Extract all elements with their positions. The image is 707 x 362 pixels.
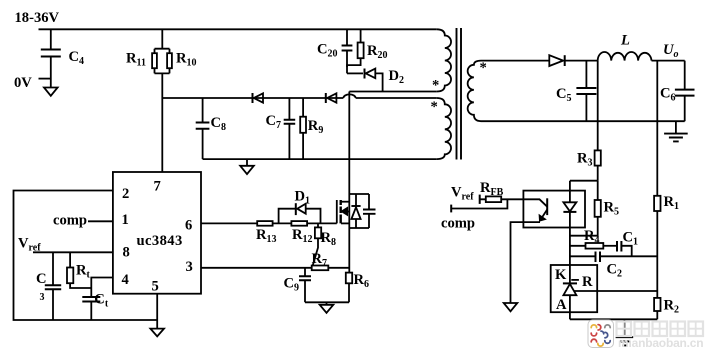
resistor RFB xyxy=(480,180,524,204)
wire pin5 to ground xyxy=(156,294,158,329)
wire pin3 current sense xyxy=(201,267,312,269)
svg-text:Vref: Vref xyxy=(18,236,41,254)
capacitor C2 xyxy=(596,252,658,280)
watermark logo xyxy=(588,320,614,348)
diode D aux2 (pointing left) xyxy=(326,93,337,103)
optocoupler LED xyxy=(563,181,576,284)
svg-text:C5: C5 xyxy=(556,86,572,104)
wire aux ground rail xyxy=(203,158,437,160)
resistor R2 xyxy=(654,298,679,320)
ground (input 0V) xyxy=(44,88,58,96)
svg-text:R: R xyxy=(582,274,593,290)
ground (sense rail) xyxy=(320,302,334,313)
svg-text:D2: D2 xyxy=(389,68,405,86)
resistor R20 xyxy=(347,29,388,73)
transformer core xyxy=(457,28,462,160)
wire source vertical xyxy=(348,228,350,273)
svg-text:uc3843: uc3843 xyxy=(137,233,183,249)
svg-text:comp: comp xyxy=(441,216,475,232)
wire R3 to LED branch xyxy=(570,181,598,200)
svg-text:Ct: Ct xyxy=(94,292,109,310)
ground (aux rail) xyxy=(240,159,254,174)
capacitor Ct xyxy=(82,278,113,321)
resistor R11 xyxy=(126,51,157,69)
wire Vin to R11/R10 xyxy=(155,29,170,172)
capacitor C4 xyxy=(41,29,84,87)
wire pin6 gate drive xyxy=(201,222,257,224)
optocoupler phototransistor xyxy=(511,198,548,303)
diode D aux1 (pointing left) xyxy=(253,93,264,103)
svg-text:R3: R3 xyxy=(577,151,593,169)
wire comp tap xyxy=(451,199,507,212)
transformer secondary winding xyxy=(468,60,487,121)
wire hop over drain xyxy=(343,94,355,98)
svg-text:4: 4 xyxy=(122,272,130,288)
resistor R3 xyxy=(577,61,601,181)
svg-text:C: C xyxy=(36,271,47,287)
diode D3 rectifier (pointing right) xyxy=(549,55,597,66)
svg-text:RFB: RFB xyxy=(480,180,504,198)
wire comp to pin1 xyxy=(88,220,113,222)
resistor R8 xyxy=(313,223,336,265)
wire L to output xyxy=(652,60,685,62)
svg-text:K: K xyxy=(555,267,567,283)
capacitor C3 xyxy=(36,252,61,320)
wire anode bottom rail xyxy=(570,318,657,320)
svg-text:R2: R2 xyxy=(664,298,680,316)
resistor R12 xyxy=(291,221,312,245)
diode D2 (pointing left) xyxy=(347,68,404,92)
resistor Rt xyxy=(67,252,91,288)
wire Vref to pin8 xyxy=(33,251,113,253)
optocoupler U2 box xyxy=(523,191,585,228)
svg-text:7: 7 xyxy=(154,179,161,195)
capacitor C1 xyxy=(617,230,638,257)
svg-text:C4: C4 xyxy=(69,49,85,67)
resistor R4 xyxy=(584,228,617,249)
svg-text:C8: C8 xyxy=(211,115,227,133)
ground (IC pin5) xyxy=(150,329,164,337)
svg-text:0V: 0V xyxy=(14,75,32,91)
transistor Q1 MOSFET xyxy=(325,194,376,228)
ground (TL431 anode, earth style) xyxy=(616,319,634,345)
transformer primary winding 2 xyxy=(431,98,452,159)
capacitor C9 xyxy=(284,268,312,303)
wire VCC rail right of hop to winding 2 xyxy=(356,97,437,99)
svg-text:C20: C20 xyxy=(317,42,338,60)
resistor R1 xyxy=(654,194,679,298)
wire top input rail xyxy=(39,28,437,30)
resistor R5 xyxy=(570,200,619,236)
transformer primary winding 1 xyxy=(432,29,451,93)
capacitor C5 xyxy=(556,61,596,122)
svg-text:3: 3 xyxy=(186,259,193,275)
IC U3 TL431 box xyxy=(551,265,598,313)
svg-text:R6: R6 xyxy=(354,272,370,290)
IC U1 uc3843 xyxy=(113,172,201,295)
wire TL431 ref to divider xyxy=(574,290,658,292)
svg-text:C9: C9 xyxy=(284,276,300,294)
svg-text:R10: R10 xyxy=(176,51,197,69)
svg-text:R13: R13 xyxy=(256,227,277,245)
svg-text:R5: R5 xyxy=(604,200,620,218)
wire drain vertical xyxy=(348,92,350,195)
svg-text:A: A xyxy=(556,297,567,313)
svg-text:R20: R20 xyxy=(367,43,388,61)
wire R1 branch vertical xyxy=(656,61,658,196)
svg-text:6: 6 xyxy=(185,218,192,234)
watermark text xyxy=(617,322,704,351)
svg-text:1: 1 xyxy=(122,212,129,228)
svg-text:C7: C7 xyxy=(266,113,282,131)
wire secondary bottom rail xyxy=(481,120,685,122)
capacitor C6 xyxy=(660,61,695,122)
ground (output, earth style) xyxy=(664,121,688,141)
svg-text:*: * xyxy=(431,99,438,115)
label 0V xyxy=(14,75,51,91)
svg-text:Vref: Vref xyxy=(451,185,474,203)
svg-text:R11: R11 xyxy=(126,51,146,69)
ground (opto emitter) xyxy=(504,303,518,311)
wire sense bottom rail xyxy=(305,301,349,303)
wire between R13 R12 xyxy=(273,222,292,224)
resistor R6 xyxy=(346,272,369,302)
resistor R13 xyxy=(256,221,277,245)
svg-text:2: 2 xyxy=(122,186,129,202)
TL431 shunt symbol xyxy=(563,280,579,319)
svg-text:3: 3 xyxy=(40,292,45,303)
svg-text:*: * xyxy=(432,78,439,94)
wire pin2 feedback loop xyxy=(14,191,158,321)
wire K rail branches xyxy=(570,246,596,256)
capacitor C20 xyxy=(317,29,352,67)
svg-text:C1: C1 xyxy=(623,230,639,248)
resistor R7 xyxy=(312,251,350,270)
capacitor C8 xyxy=(196,98,226,159)
svg-text:comp: comp xyxy=(53,213,87,229)
svg-text:Uo: Uo xyxy=(663,42,679,60)
svg-text:D1: D1 xyxy=(295,189,311,207)
svg-text:R8: R8 xyxy=(321,230,337,248)
wire winding1 bottom (line A) to drain xyxy=(349,91,437,93)
wire VCC rail (aux supply line) xyxy=(162,97,343,99)
svg-text:R9: R9 xyxy=(308,118,324,136)
svg-text:R1: R1 xyxy=(664,194,680,212)
svg-text:mianbaoban.cn: mianbaoban.cn xyxy=(618,336,703,350)
svg-text:C2: C2 xyxy=(607,262,623,280)
resistor R10 xyxy=(167,51,196,69)
wire R12 to gate node xyxy=(307,222,325,224)
resistor R9 xyxy=(300,98,323,159)
svg-text:Rt: Rt xyxy=(76,263,91,281)
svg-text:R12: R12 xyxy=(292,227,313,245)
svg-text:5: 5 xyxy=(152,279,159,295)
svg-text:C6: C6 xyxy=(660,86,676,104)
capacitor C7 xyxy=(266,98,296,159)
svg-text:8: 8 xyxy=(123,245,130,261)
diode D1 (bypass, pointing right) xyxy=(279,189,321,224)
wire secondary top xyxy=(481,60,549,62)
svg-text:*: * xyxy=(480,60,487,76)
inductor L xyxy=(598,33,652,61)
svg-text:R7: R7 xyxy=(312,251,328,269)
svg-text:18-36V: 18-36V xyxy=(15,10,60,26)
svg-text:L: L xyxy=(620,33,630,49)
